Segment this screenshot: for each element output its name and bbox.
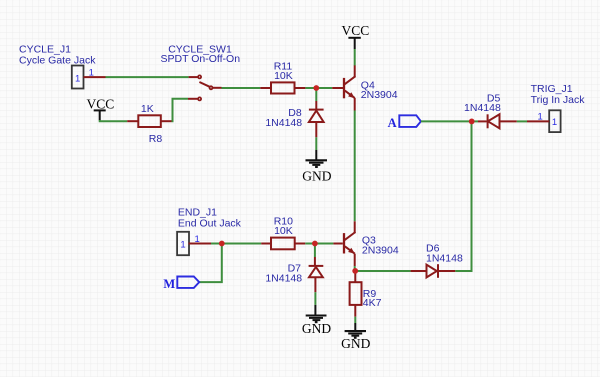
svg-text:4K7: 4K7	[363, 297, 382, 309]
svg-text:10K: 10K	[274, 225, 293, 237]
power flag VCC (left)	[87, 96, 115, 120]
svg-text:1: 1	[75, 73, 80, 84]
wire R9 to GND	[354, 317, 356, 323]
pin 1 of CYCLE_J1	[84, 68, 106, 79]
wire R8 to SW1 throw2	[172, 99, 189, 121]
wire Q3 emitter to junction	[354, 266, 356, 271]
junction dot A/D5/D6	[469, 119, 475, 125]
svg-text:1N4148: 1N4148	[464, 102, 501, 114]
wire junction to D6	[355, 270, 410, 272]
svg-text:TRIG_J1: TRIG_J1	[531, 83, 573, 95]
resistor R11 10K	[260, 60, 305, 93]
svg-text:1: 1	[538, 111, 543, 122]
net label A	[388, 115, 421, 130]
wire Q4 emitter to Q3 collector	[354, 111, 356, 222]
svg-text:1: 1	[552, 117, 557, 128]
svg-text:GND: GND	[341, 336, 370, 351]
pin 1 of TRIG_J1	[527, 111, 549, 122]
ground GND (under D7)	[302, 305, 331, 336]
pin 1 of END_J1	[189, 234, 212, 245]
switch CYCLE_SW1 (SPDT On-Off-On)	[161, 43, 241, 100]
svg-text:SPDT On-Off-On: SPDT On-Off-On	[161, 53, 241, 65]
svg-text:GND: GND	[302, 169, 331, 184]
diode D6 1N4148	[411, 243, 463, 278]
svg-text:1N4148: 1N4148	[426, 253, 463, 265]
wire D8 to GND	[315, 137, 317, 150]
wire VCC to R8	[100, 120, 128, 121]
diode D7 1N4148	[265, 257, 323, 292]
wire END_J1 to junction	[211, 243, 222, 245]
svg-text:1: 1	[89, 68, 94, 79]
wire A to junction	[421, 120, 472, 122]
junction dot Q3 emitter/R9/D6	[352, 268, 358, 274]
resistor R10 10K	[261, 215, 305, 249]
junction dot END_J1/R10/M	[219, 241, 225, 247]
svg-text:1N4148: 1N4148	[265, 117, 302, 129]
ground GND (under R9)	[341, 323, 370, 351]
svg-text:10K: 10K	[274, 70, 293, 82]
connector CYCLE_J1 (Cycle Gate Jack)	[19, 44, 96, 89]
wire SW1 common to R11	[222, 87, 261, 89]
wire junction to D5 anode	[472, 120, 478, 122]
connector END_J1 (End Out Jack)	[177, 207, 242, 256]
svg-text:End Out Jack: End Out Jack	[178, 218, 242, 230]
ground GND (under D8)	[302, 150, 331, 184]
svg-text:1: 1	[194, 234, 199, 245]
wire junction down to D8	[315, 88, 317, 101]
wire junction down to D7	[314, 244, 316, 258]
net label M	[163, 277, 199, 291]
junction dot R11/D8/Q4 base	[313, 85, 319, 91]
wire D5 to TRIG_J1	[517, 120, 527, 122]
svg-text:R8: R8	[149, 133, 163, 145]
svg-text:VCC: VCC	[342, 23, 370, 38]
wire R10 to Q3 base	[305, 243, 333, 245]
svg-text:VCC: VCC	[87, 96, 115, 111]
wire junction down to D6	[455, 121, 471, 271]
power flag VCC (top)	[342, 23, 370, 49]
wire junction down to M flag	[199, 244, 222, 283]
svg-text:2N3904: 2N3904	[361, 89, 398, 101]
transistor Q4 2N3904	[332, 65, 398, 110]
svg-text:2N3904: 2N3904	[362, 245, 399, 257]
svg-text:1: 1	[180, 240, 185, 251]
svg-text:A: A	[388, 116, 397, 130]
transistor Q3 2N3904	[333, 221, 398, 266]
svg-text:Cycle Gate Jack: Cycle Gate Jack	[19, 55, 96, 67]
svg-text:Trig In Jack: Trig In Jack	[531, 94, 586, 106]
wire junction to R10	[222, 243, 261, 245]
wire VCC to Q4 collector	[354, 49, 356, 66]
resistor R8 1K	[127, 103, 171, 145]
svg-text:1N4148: 1N4148	[265, 273, 302, 285]
resistor R9 4K7	[350, 271, 382, 317]
svg-text:GND: GND	[302, 321, 331, 336]
wire R11 to Q4 base	[305, 87, 332, 89]
diode D5 1N4148	[464, 93, 501, 115]
wire CYCLE_J1 to SW1 throw1	[106, 76, 189, 78]
svg-text:1K: 1K	[141, 103, 154, 115]
junction dot R10/D7/Q3 base	[312, 241, 318, 247]
svg-text:M: M	[163, 277, 175, 291]
diode D8 1N4148	[265, 101, 323, 137]
wire D7 to GND	[314, 292, 316, 305]
connector TRIG_J1 (Trig In Jack)	[531, 83, 586, 132]
